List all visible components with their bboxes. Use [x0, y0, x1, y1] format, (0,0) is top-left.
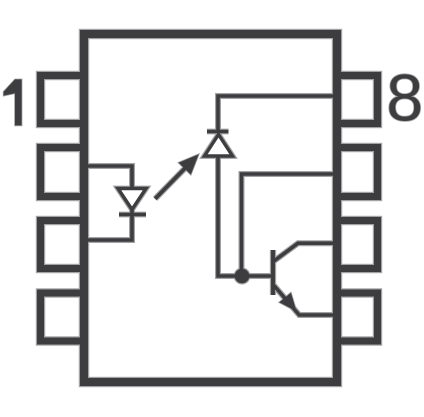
svg-text:8: 8: [386, 61, 423, 135]
